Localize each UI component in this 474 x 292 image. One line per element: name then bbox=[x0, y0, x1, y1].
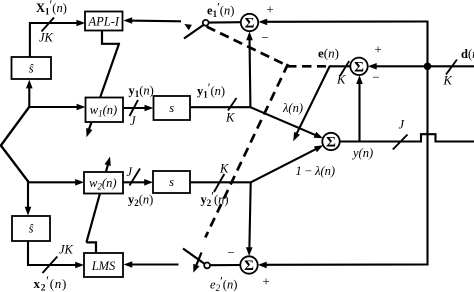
wire X1prime: s-hat to APL-I bbox=[30, 23, 81, 58]
switch2 contact circle bbox=[204, 263, 210, 269]
box w2(n) bbox=[84, 172, 123, 194]
wire switch2 to LMS bbox=[128, 263, 179, 265]
svg-text:K: K bbox=[225, 111, 235, 125]
svg-text:w2(n): w2(n) bbox=[89, 176, 116, 192]
box w1(n) bbox=[86, 98, 124, 123]
svg-text:1 − λ(n): 1 − λ(n) bbox=[296, 164, 336, 178]
svg-text:w1(n): w1(n) bbox=[90, 103, 117, 119]
box LMS bbox=[84, 253, 123, 277]
svg-text:ŝ: ŝ bbox=[29, 222, 34, 236]
svg-text:LMS: LMS bbox=[91, 259, 116, 273]
box s-hat top bbox=[12, 57, 52, 79]
wire lambda branch J1 to sum3 bbox=[250, 107, 316, 135]
wire main vertical d bus bbox=[426, 21, 428, 266]
slash J on y wire bbox=[393, 135, 408, 150]
wire junction to s-hat2 bbox=[27, 180, 29, 212]
svg-text:y2′(n): y2′(n) bbox=[201, 190, 229, 209]
adjust arrow LMS to w2 bbox=[86, 242, 96, 253]
wire switch1 to APL-I bbox=[128, 20, 182, 23]
svg-text:JK: JK bbox=[39, 31, 54, 45]
sum3 y(n) bbox=[322, 133, 339, 150]
dashed link corner to switch2 bbox=[205, 64, 288, 238]
svg-text:X1′(n): X1′(n) bbox=[36, 0, 67, 17]
wire w1 to s bbox=[123, 107, 149, 109]
svg-text:ŝ: ŝ bbox=[29, 62, 34, 76]
svg-text:y2(n): y2(n) bbox=[128, 193, 153, 209]
slash J between w1 and s bbox=[130, 100, 139, 116]
wire s to node J1 bbox=[190, 106, 250, 108]
slash JK on X1prime wire bbox=[42, 18, 55, 32]
svg-text:s: s bbox=[169, 101, 174, 115]
svg-text:e1′(n): e1′(n) bbox=[207, 1, 234, 20]
svg-text:e(n): e(n) bbox=[318, 46, 339, 61]
svg-text:Σ: Σ bbox=[245, 16, 255, 32]
wire sum1 to switch1 bbox=[208, 21, 241, 23]
svg-text:+: + bbox=[266, 2, 273, 17]
slash K on y2prime wire bbox=[214, 174, 224, 192]
svg-text:e2′(n): e2′(n) bbox=[210, 275, 237, 292]
svg-text:y(n): y(n) bbox=[351, 146, 373, 160]
wire bottom feedback d to sum4 bbox=[262, 263, 427, 265]
wire input X upper diagonal bbox=[1, 107, 30, 146]
wire junction to w2 bbox=[27, 181, 80, 183]
svg-text:s: s bbox=[169, 175, 174, 189]
wire node J2 down to sum4 bbox=[249, 182, 250, 252]
svg-text:Σ: Σ bbox=[244, 258, 254, 274]
svg-text:y1(n): y1(n) bbox=[129, 84, 154, 100]
slash K on y1prime wire bbox=[228, 98, 237, 111]
slash K before sum2 bbox=[340, 61, 349, 76]
svg-text:−: − bbox=[261, 30, 268, 45]
box s-hat bottom bbox=[12, 216, 50, 241]
wire junction to s-hat top box bbox=[28, 83, 30, 108]
slash J between w2 and s2 bbox=[130, 169, 141, 186]
junction dot d bus bbox=[424, 63, 431, 70]
switch2 lever bbox=[183, 249, 205, 264]
wire y(n) output with hop bbox=[340, 134, 474, 141]
svg-text:+: + bbox=[374, 42, 381, 57]
svg-text:Σ: Σ bbox=[326, 135, 336, 151]
box s top bbox=[154, 96, 191, 120]
sum4 e2prime bbox=[240, 256, 257, 273]
wire 1-lambda branch J2 to sum3 bbox=[251, 149, 316, 182]
wire node J1 up to sum1 bbox=[248, 36, 251, 107]
adjust arrow APL-I to w1 bbox=[102, 31, 119, 45]
wire junction to w1 bbox=[28, 106, 81, 108]
wire x2prime: s-hat2 to LMS bbox=[28, 241, 80, 265]
svg-text:K: K bbox=[443, 74, 453, 88]
box APL-I bbox=[85, 12, 123, 31]
wire top feedback d to sum1 bbox=[263, 20, 428, 22]
svg-text:APL-I: APL-I bbox=[88, 15, 120, 29]
svg-text:+: + bbox=[262, 274, 269, 289]
slash JK on x2prime wire bbox=[43, 257, 58, 274]
box s bottom bbox=[153, 171, 190, 193]
switch1 direction arrow bbox=[184, 24, 192, 30]
svg-text:Σ: Σ bbox=[354, 59, 364, 75]
dashed link switch1 to corner bbox=[207, 27, 288, 66]
wire e(n) out of sum2 bbox=[329, 65, 350, 67]
svg-text:J: J bbox=[399, 118, 406, 132]
wire d(n) input bbox=[372, 65, 474, 67]
svg-text:−: − bbox=[372, 70, 379, 85]
wire sum4 to switch2 bbox=[210, 264, 241, 266]
svg-text:y1′(n): y1′(n) bbox=[197, 81, 225, 100]
switch1 contact circle bbox=[203, 20, 209, 26]
svg-text:d(n): d(n) bbox=[461, 47, 474, 61]
svg-text:J: J bbox=[130, 114, 137, 128]
sum2 e(n) bbox=[350, 58, 367, 75]
svg-text:K: K bbox=[336, 73, 346, 87]
sum1 e1prime bbox=[241, 14, 258, 31]
switch1 lever bbox=[184, 25, 203, 39]
wire y branch up to sum2 bbox=[358, 79, 360, 140]
slash K on d wire bbox=[446, 60, 457, 75]
svg-text:K: K bbox=[219, 162, 229, 176]
svg-text:−: − bbox=[227, 245, 234, 260]
switch2 direction arrow bbox=[196, 253, 202, 267]
svg-text:J: J bbox=[127, 165, 134, 179]
dashed link corner to e(n) bbox=[287, 65, 326, 68]
svg-text:λ(n): λ(n) bbox=[282, 101, 303, 115]
wire s2 to node J2 bbox=[190, 181, 251, 183]
wire input X lower diagonal bbox=[1, 145, 29, 181]
svg-text:x2′(n): x2′(n) bbox=[34, 273, 67, 292]
svg-text:JK: JK bbox=[59, 243, 74, 257]
wire e(n) control arrow to lambda bbox=[295, 66, 330, 137]
wire w2 to s2 bbox=[123, 181, 149, 183]
